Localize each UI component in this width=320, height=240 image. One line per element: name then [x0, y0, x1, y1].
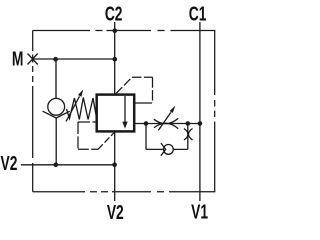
svg-text:C2: C2 — [105, 2, 123, 25]
svg-text:V1: V1 — [191, 200, 208, 223]
svg-text:V2: V2 — [107, 200, 124, 223]
svg-text:M: M — [12, 47, 24, 70]
svg-text:C1: C1 — [189, 2, 207, 25]
svg-text:V2: V2 — [1, 151, 18, 174]
